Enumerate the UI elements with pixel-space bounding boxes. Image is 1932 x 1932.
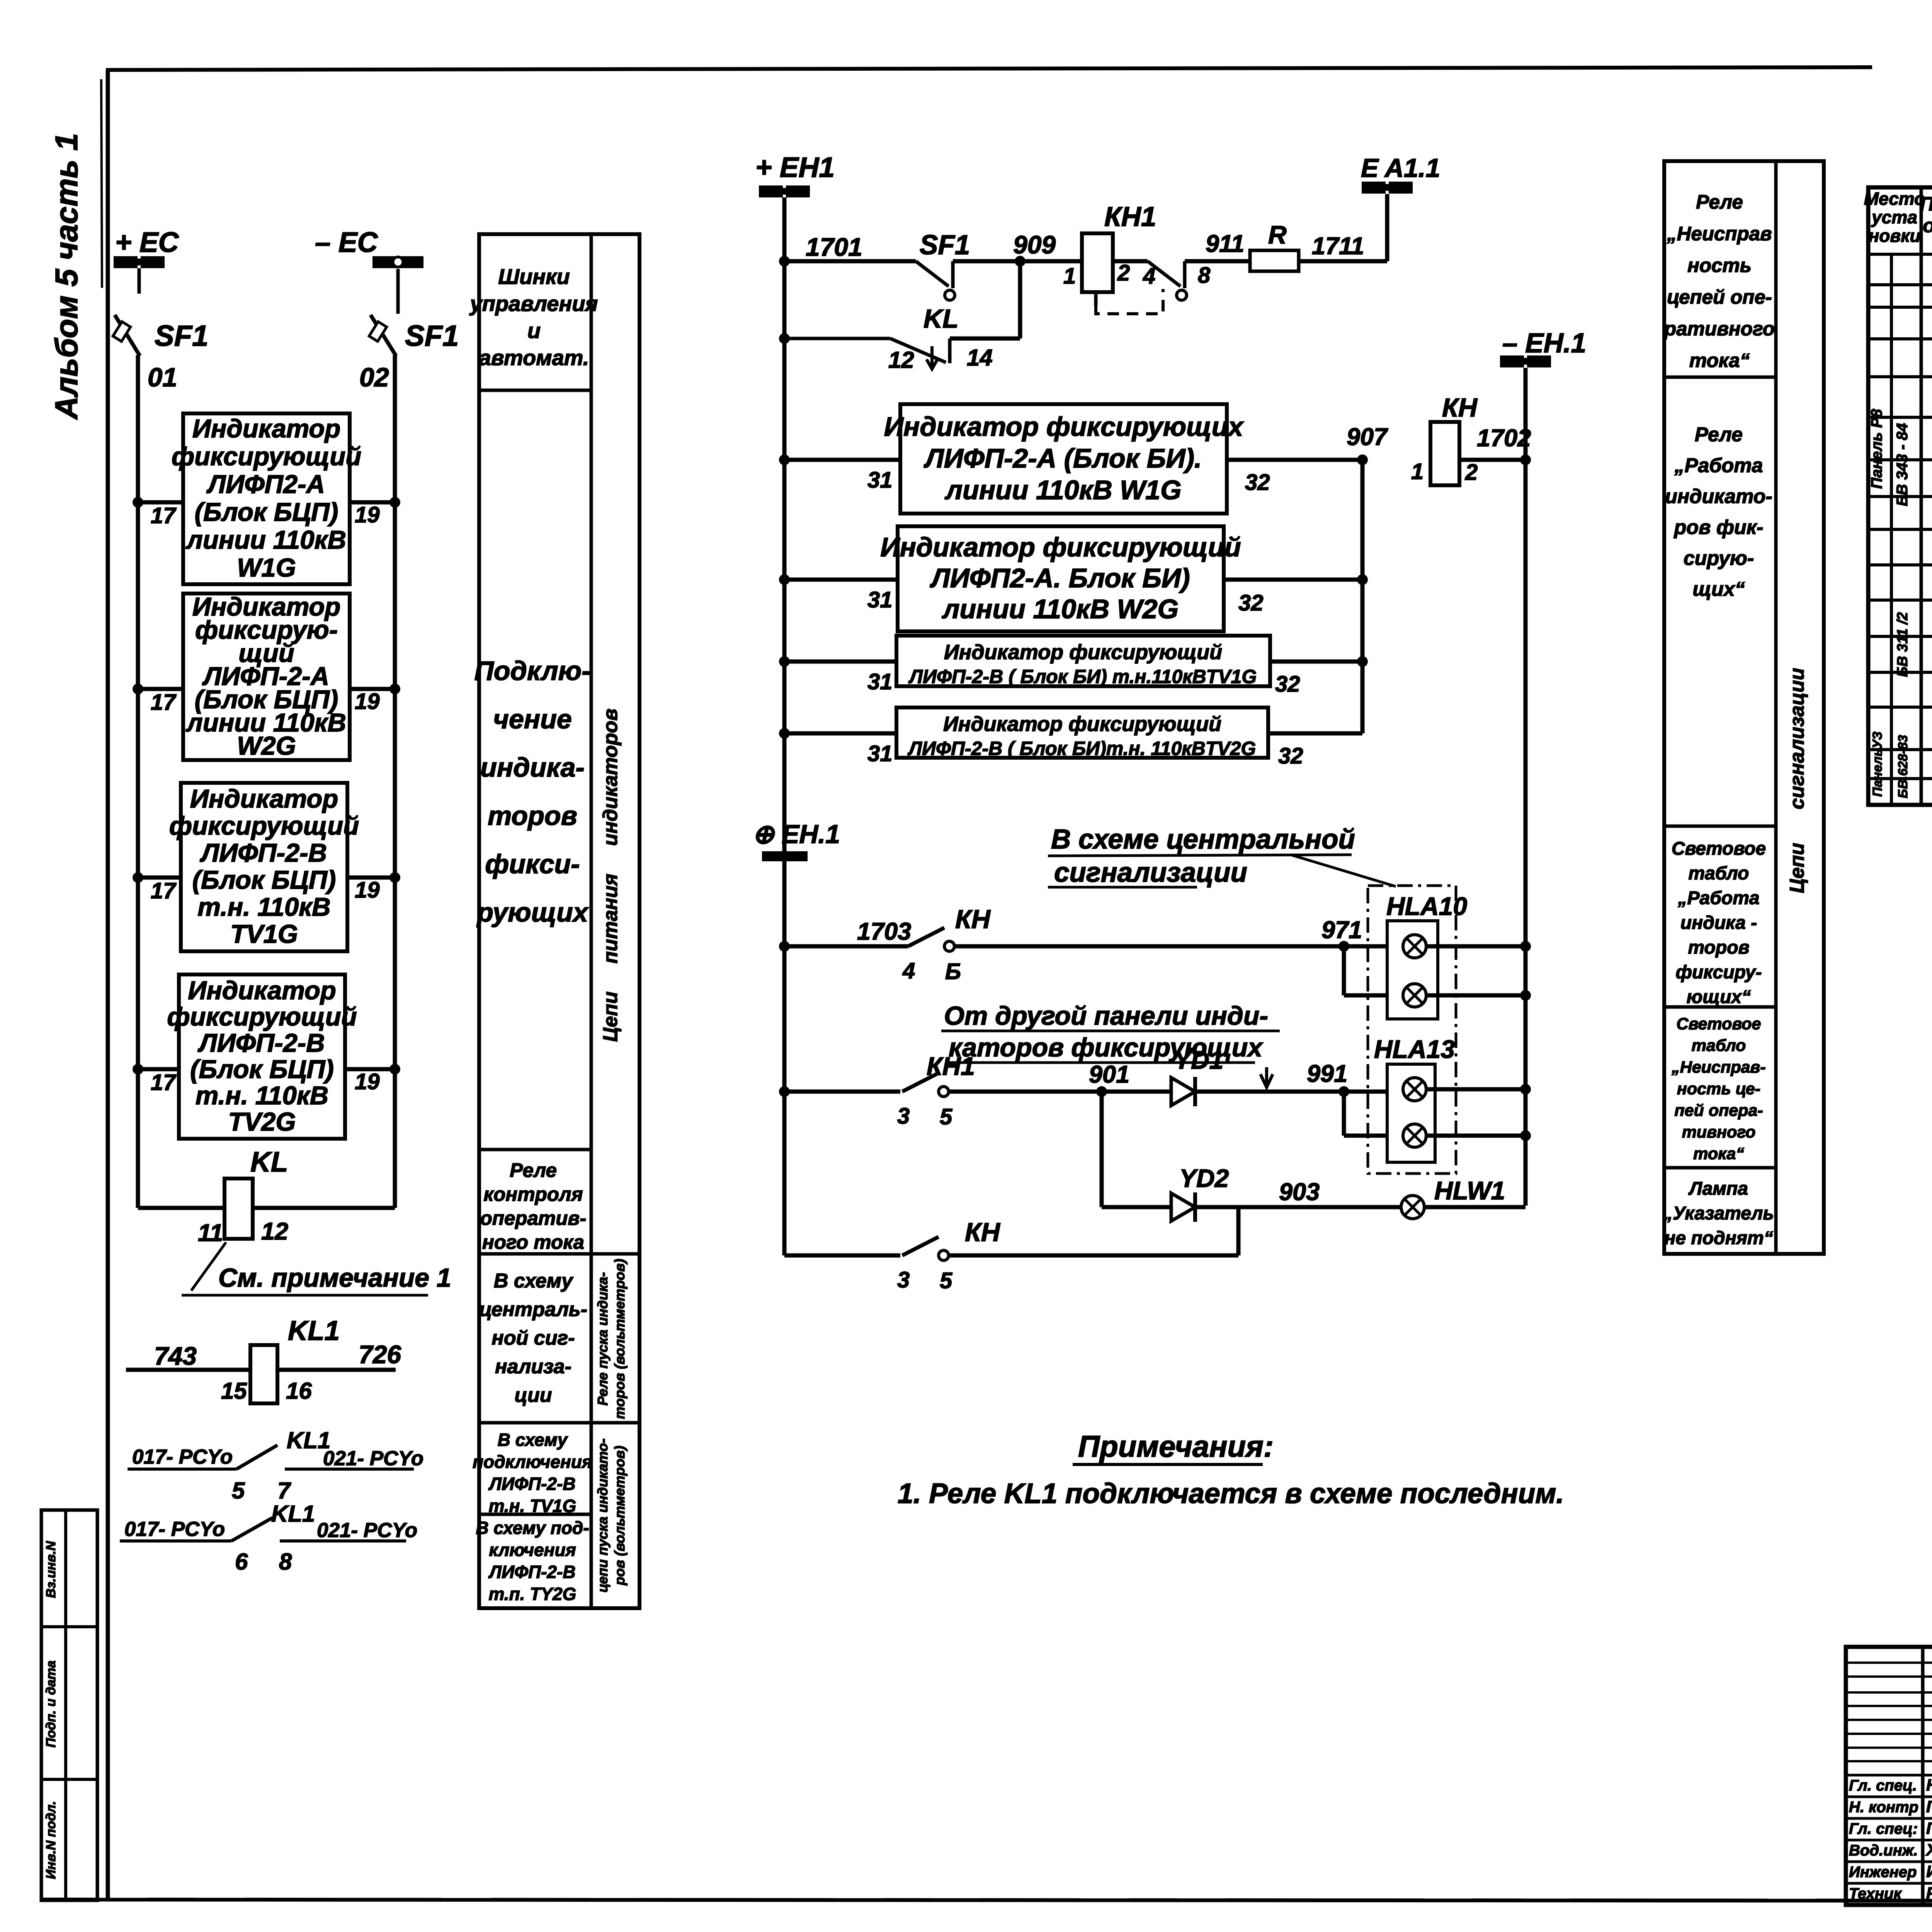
wire stub 17 box2 [138,687,183,691]
svg-text:централь-: централь- [479,1298,587,1321]
wire stub 19 box3 [347,876,395,880]
svg-text:⊕ EH.1: ⊕ EH.1 [752,820,840,849]
contact KH pins 4-Б [908,928,954,951]
annotation column (шинки/подключение/реле) [479,234,639,1608]
svg-text:ров фик-: ров фик- [1673,516,1764,539]
cell Световое табло Работа индикаторов фиксирующих [1672,838,1766,1007]
svg-text:„Работа: „Работа [1677,888,1759,908]
breaker SF1 pole 01 [113,315,140,356]
wire 1701 [784,259,916,264]
wire boxA 32 to node 907 [1227,458,1362,462]
svg-text:пей опера-: пей опера- [1674,1101,1763,1120]
svg-text:8: 8 [1198,263,1211,288]
cell Реле Неисправность цепей оперативного тока [1663,191,1775,371]
svg-text:3: 3 [897,1104,910,1129]
svg-text:цепей опе-: цепей опе- [1667,286,1772,308]
junction box3 left [133,872,143,883]
contact KL1 pins 6-8 [120,1501,417,1575]
wire node 907 vertical [1361,460,1365,733]
svg-text:01: 01 [148,362,177,392]
svg-text:Позиционное: Позиционное [1920,193,1932,215]
svg-text:ного тока: ного тока [482,1231,584,1253]
bus ⊕EH.1 [752,820,840,861]
cell Реле Работа индикаторов фиксирующих [1665,423,1772,600]
svg-text:Лампа: Лампа [1688,1179,1748,1199]
svg-text:См. примечание 1: См. примечание 1 [218,1263,451,1293]
breaker SF1 pole 02 [369,315,396,356]
header Место установки [1864,189,1925,246]
wire 01 vertical [136,355,140,1208]
svg-text:„Указатель: „Указатель [1663,1203,1774,1224]
cell В схему подключения ЛИФП-2-В т.н. TV1G [473,1430,592,1516]
svg-text:подключения: подключения [473,1452,592,1472]
svg-text:В схему под-: В схему под- [476,1518,589,1538]
indicator box БИ W1G [884,404,1245,514]
lamp HLW1 [1401,1196,1424,1219]
junction box4 left [133,1064,143,1075]
svg-text:KL1: KL1 [271,1501,315,1527]
svg-text:16: 16 [286,1378,312,1404]
svg-text:ющих“: ющих“ [1687,987,1751,1007]
indicator box ЛИФП-2-А W2G [183,592,350,760]
svg-text:TV2G: TV2G [228,1107,296,1136]
svg-text:новки: новки [1868,226,1920,246]
svg-text:(Блок БЦП): (Блок БЦП) [190,1055,334,1084]
svg-text:31: 31 [867,468,893,493]
wire stub 19 box1 [350,500,395,505]
junction KL wire [779,333,790,344]
svg-text:КН: КН [1442,393,1478,422]
indicator box ЛИФП-2-В TV2G [167,975,357,1139]
svg-text:Иванова: Иванова [1926,1862,1932,1881]
svg-text:БВ 343 - 84: БВ 343 - 84 [1894,423,1911,506]
wire +EH1 vertical (upper) [782,197,787,851]
svg-text:19: 19 [355,689,380,714]
svg-text:Индикатор фиксирующий: Индикатор фиксирующий [944,641,1222,664]
svg-text:KL: KL [250,1146,288,1178]
bus -EH1 [1500,328,1586,367]
svg-text:фиксирующий: фиксирующий [172,442,361,471]
svg-text:31: 31 [867,741,893,766]
svg-text:Индикатор фиксирующих: Индикатор фиксирующих [884,412,1245,442]
svg-text:Горелик: Горелик [1926,1819,1932,1838]
svg-text:Вод.инж.: Вод.инж. [1849,1842,1918,1859]
svg-text:ЛИФП-2-А (Блок БИ).: ЛИФП-2-А (Блок БИ). [923,443,1202,473]
svg-text:В схеме центральной: В схеме центральной [1051,824,1355,855]
wire stub 19 box4 [345,1067,395,1071]
riser to 903 wire [1236,1207,1241,1255]
cell В схему центральной сигнализации [479,1270,587,1406]
svg-text:Распопова: Распопова [1926,1884,1932,1903]
wire stub 31 boxB [784,578,898,582]
wire 909 to KH1 [1020,259,1082,264]
svg-text:R: R [1268,220,1287,249]
junction boxA 31 [779,454,790,465]
svg-text:От другой панели инди-: От другой панели инди- [944,1001,1268,1031]
svg-text:оператив-: оператив- [480,1207,586,1229]
svg-text:17: 17 [151,1070,177,1095]
svg-text:SF1: SF1 [155,320,208,352]
indicator box ЛИФП-2-В TV1G [169,783,359,951]
junction box1 right [389,497,400,508]
svg-text:В схему: В схему [494,1270,574,1292]
wire stub 17 box1 [138,500,183,505]
svg-text:ключения: ключения [489,1540,576,1560]
svg-text:Н. контр: Н. контр [1849,1799,1918,1816]
svg-text:индикато-: индикато- [1665,485,1772,508]
note В схеме центральной сигнализации [1048,824,1355,888]
junction box2 right [389,684,400,694]
svg-text:4: 4 [902,958,915,983]
svg-text:6: 6 [235,1549,248,1575]
junction 907-B [1357,574,1368,585]
notes Примечания [898,1429,1564,1509]
svg-text:E A1.1: E A1.1 [1361,153,1440,183]
lamp HLA13-1 [1403,1078,1426,1101]
svg-text:тока“: тока“ [1689,349,1750,371]
wire to 911/R [1185,259,1250,264]
wire boxB 32 [1224,578,1362,582]
svg-text:HLA13: HLA13 [1374,1035,1455,1063]
svg-text:БВ.628-83: БВ.628-83 [1896,735,1910,798]
contact KH pins 3-5 [902,1237,949,1260]
wire EH.1 vertical (lower) [782,861,787,1255]
svg-text:тока“: тока“ [1693,1145,1744,1163]
svg-text:TV1G: TV1G [230,920,298,949]
svg-text:32: 32 [1275,672,1300,697]
svg-text:и: и [527,318,541,343]
svg-text:Гл. спец:: Гл. спец: [1849,1820,1918,1837]
svg-text:Шинки: Шинки [498,264,570,289]
wire node909 down [1018,261,1022,338]
diode YD2 [1171,1192,1195,1222]
svg-text:31: 31 [867,587,893,612]
wire stub 17 box3 [138,876,181,880]
svg-text:Вз.инв.N: Вз.инв.N [44,1541,58,1598]
svg-text:017- PCYo: 017- PCYo [132,1446,233,1468]
svg-text:31: 31 [867,669,893,694]
svg-text:Техник: Техник [1849,1885,1902,1902]
svg-text:Индикатор: Индикатор [190,784,338,813]
junction 971 [1338,941,1349,952]
svg-text:Подп. и дата: Подп. и дата [44,1660,58,1747]
svg-text:ЛИФП-2-В: ЛИФП-2-В [488,1474,575,1494]
wire 743 to KL1 coil [126,1368,250,1372]
svg-text:ЛИФП2-А: ЛИФП2-А [206,470,325,499]
svg-text:(Блок БЦП): (Блок БЦП) [195,498,338,527]
svg-text:т.н. 110кВ: т.н. 110кВ [197,893,330,922]
svg-text:индика -: индика - [1680,913,1757,933]
svg-text:Альбом 5 часть 1: Альбом 5 часть 1 [49,133,84,420]
svg-text:КН: КН [965,1218,1001,1247]
breaker contact SF1 [916,261,955,300]
contact KH1 pins 3-5 [902,1073,949,1097]
svg-text:SF1: SF1 [920,230,970,260]
svg-text:ность: ность [1687,254,1752,276]
svg-text:991: 991 [1307,1060,1347,1087]
wire boxC 32 [1270,660,1362,664]
svg-text:ной сиг-: ной сиг- [492,1327,575,1349]
bus -EC [315,227,423,314]
mechanical link (dashed) KH1 [1094,292,1098,306]
cell Реле контроля оперативного тока [480,1159,586,1253]
svg-text:15: 15 [221,1378,247,1404]
cell Лампа Указатель не поднят [1663,1179,1774,1248]
svg-text:– EH.1: – EH.1 [1502,328,1586,359]
junction -EH1 991 [1520,1084,1531,1095]
svg-text:ративного: ративного [1663,318,1775,340]
resistor R [1250,250,1299,271]
svg-text:HLW1: HLW1 [1434,1176,1505,1205]
svg-text:торов: торов [488,801,577,831]
junction 907-C [1357,656,1368,667]
svg-text:автомат.: автомат. [479,345,589,370]
wire HLA13-2 to -EH1 [1426,1134,1526,1138]
svg-text:1701: 1701 [806,233,862,261]
pointer line to HLA10 [1291,855,1396,886]
svg-text:KL1: KL1 [288,1316,340,1346]
svg-text:5: 5 [232,1478,245,1503]
svg-text:SF1: SF1 [405,320,459,352]
junction box3 right [389,872,400,883]
relay coil KH1 (pins 1-2) [1082,233,1113,292]
svg-text:19: 19 [355,502,380,527]
svg-text:нализа-: нализа- [495,1355,571,1378]
svg-text:табло: табло [1688,863,1749,884]
svg-text:уста: уста [1871,207,1917,227]
indicator box ЛИФП2-А W1G [172,413,361,584]
wire KL to node 909 drop [950,337,1020,341]
svg-text:Реле пуска индика-: Реле пуска индика- [595,1272,611,1405]
svg-text:фиксирующий: фиксирующий [169,811,359,840]
svg-text:17: 17 [151,503,177,528]
arrow from other panel to wire 991 [1260,1067,1273,1087]
wire to KL coil left [138,1206,224,1210]
wire to riser [949,1253,1238,1258]
svg-text:Цепи сигнализации: Цепи сигнализации [1786,668,1808,893]
svg-text:971: 971 [1321,917,1362,944]
svg-text:линии 110кВ: линии 110кВ [185,526,346,554]
junction 1703 [779,941,790,952]
table Перечень аппаратуры grid [1868,187,1932,805]
svg-text:сирую-: сирую- [1684,547,1754,570]
wire 1703 [784,944,908,949]
wire 02 vertical [393,355,397,1208]
svg-text:фиксирующий: фиксирующий [167,1002,357,1031]
lamp HLA10-1 [1403,935,1426,958]
svg-text:Реле: Реле [510,1159,557,1181]
wire branch HLA13 lamp2 [1342,1092,1346,1136]
svg-text:+ EH1: + EH1 [755,152,835,183]
junction boxB 31 [779,574,790,585]
svg-text:т.н. TV1G: т.н. TV1G [489,1496,577,1516]
svg-text:ЛИФП-2-В ( Блок БИ)т.н. 110кВT: ЛИФП-2-В ( Блок БИ)т.н. 110кВTV2G [908,738,1256,759]
svg-text:KL: KL [923,304,959,333]
relay coil KH (pins 1-2) [1430,422,1459,485]
svg-text:HLA10: HLA10 [1386,892,1467,920]
indicator box БИ TV1G [896,636,1270,687]
svg-text:ЛИФП-2-В: ЛИФП-2-В [488,1562,575,1582]
svg-text:021- PCYo: 021- PCYo [323,1447,423,1470]
bus +EC [114,227,179,294]
left margin stamp box [41,1510,97,1900]
svg-text:фикси-: фикси- [485,849,580,879]
wire 1711 [1299,259,1387,264]
svg-text:YD1: YD1 [1174,1046,1223,1074]
relay coil KL1 [250,1345,277,1403]
wire to KH1 contact [784,1090,900,1094]
svg-text:Никитин: Никитин [1926,1776,1932,1794]
svg-text:ПанельУЗ: ПанельУЗ [1870,731,1885,797]
junction box2 left [133,684,143,694]
lamp HLA13-2 [1403,1124,1426,1147]
svg-text:+ EC: + EC [115,227,179,258]
svg-text:Световое: Световое [1672,838,1766,859]
wire stub 17 box4 [138,1067,179,1071]
wire 1702 [1459,458,1526,462]
cell Подключение индикаторов фиксирующих [474,656,591,927]
node 901 [1096,1086,1107,1097]
wire bottom KH [784,1253,900,1258]
svg-text:YD2: YD2 [1179,1164,1229,1192]
svg-text:32: 32 [1238,590,1264,616]
svg-text:19: 19 [355,878,380,903]
svg-text:щих“: щих“ [1692,578,1745,600]
svg-text:ЛИФП-2-В: ЛИФП-2-В [199,838,327,867]
junction -EH1 971 [1520,941,1531,952]
svg-text:021- PCYo: 021- PCYo [317,1519,417,1542]
wire 903 [1195,1205,1401,1209]
wire 901 down to YD2 [1100,1092,1104,1207]
svg-text:Реле: Реле [1696,191,1743,213]
signal board HLA10 (dash-dot box) [1368,886,1456,1173]
svg-text:5: 5 [940,1268,952,1293]
svg-text:12: 12 [261,1218,288,1245]
svg-text:ЛИФП2-А. Блок БИ): ЛИФП2-А. Блок БИ) [929,563,1190,593]
svg-text:рующих: рующих [476,897,589,927]
junction boxC 31 [779,656,790,667]
svg-text:17: 17 [151,878,177,903]
wire stub 19 box2 [350,687,395,691]
wire to YD2 [1102,1205,1171,1209]
svg-text:КН: КН [955,905,991,934]
junction box1 left [133,497,143,508]
wire up to EA1.1 [1385,194,1389,261]
svg-text:Инв.N подл.: Инв.N подл. [44,1801,58,1879]
svg-text:Цепи питания индикатор: Цепи питания индикаторов [599,709,622,1042]
svg-text:торов (вольтметров): торов (вольтметров) [612,1259,628,1419]
svg-text:не поднят“: не поднят“ [1664,1228,1773,1248]
right annotation column [1664,161,1824,1254]
svg-text:„Неисправ-: „Неисправ- [1671,1058,1765,1077]
svg-text:Гл. спец.: Гл. спец. [1849,1777,1917,1794]
contact KL pins 12-14 [784,338,993,373]
svg-text:ЛИФП-2-В ( Блок БИ) т.н.110кВT: ЛИФП-2-В ( Блок БИ) т.н.110кВTV1G [908,666,1257,687]
wire to node 909 [953,259,1020,264]
contact KH1 pins 4-8 [1148,261,1187,300]
svg-text:907: 907 [1347,423,1388,451]
wire HLA10-1 to -EH1 [1426,944,1526,949]
svg-text:ЛИФП-2-В: ЛИФП-2-В [197,1029,325,1058]
svg-text:Место: Место [1864,189,1925,209]
svg-text:017- PCYo: 017- PCYo [124,1518,225,1541]
junction box4 right [389,1064,400,1075]
svg-text:ров (вольтметров): ров (вольтметров) [612,1446,628,1585]
svg-text:17: 17 [151,690,177,715]
svg-text:W2G: W2G [237,731,296,760]
svg-text:11: 11 [198,1219,223,1247]
svg-text:БВ 311 /2: БВ 311 /2 [1895,612,1911,677]
junction -EH1 HLA10-2 [1520,990,1531,1001]
title block grid [1846,1647,1932,1905]
svg-text:ность це-: ность це- [1677,1080,1760,1098]
signature rows [1849,1776,1932,1903]
bus +EH1 [755,152,835,197]
lamp block HLA13 [1387,1064,1435,1162]
wire HLW1 to -EH1 [1424,1205,1526,1209]
svg-text:Индикатор фиксирующий: Индикатор фиксирующий [943,713,1221,736]
svg-text:Индикатор: Индикатор [192,414,341,443]
svg-text:КН1: КН1 [1104,202,1156,232]
header Позиционное обозначение по схеме [1920,193,1932,258]
svg-text:тивного: тивного [1682,1123,1756,1141]
svg-text:ции: ции [514,1384,552,1406]
svg-text:7: 7 [277,1478,291,1503]
wire stub 31 boxC [784,660,896,664]
wire KL1 coil to 726 [277,1368,396,1372]
wire branch to lamp 2 [1342,946,1346,995]
svg-text:Индикатор фиксирующий: Индикатор фиксирующий [880,532,1241,562]
svg-text:фиксиру-: фиксиру- [1676,962,1762,983]
svg-text:3: 3 [897,1267,910,1293]
svg-text:1702: 1702 [1477,425,1531,452]
svg-text:Хрипунникова: Хрипунникова [1925,1841,1932,1859]
relay coil KL [224,1179,253,1239]
bus EA1.1 [1361,153,1440,194]
svg-text:Панель Р8: Панель Р8 [1868,409,1885,489]
cell В схему подключения ЛИФП-2-В т.п. TY2G [476,1518,589,1604]
svg-text:т.н. 110кВ: т.н. 110кВ [196,1081,328,1110]
diode YD1 [1171,1077,1195,1106]
svg-text:– EC: – EC [315,227,378,258]
svg-text:Световое: Световое [1677,1015,1761,1033]
wire to KL coil right [253,1206,395,1210]
svg-text:контроля: контроля [483,1183,583,1205]
wire -EH1 vertical [1524,368,1528,1206]
lamp block HLA10 [1387,921,1438,1019]
wire to HLA10 lamp 2 [1344,993,1403,998]
svg-text:903: 903 [1279,1179,1320,1206]
svg-text:управления: управления [469,291,598,316]
wire boxD 32 [1268,731,1362,736]
svg-text:911: 911 [1206,230,1244,257]
svg-text:Подклю-: Подклю- [474,656,591,686]
wire KH1 to contact [1113,259,1148,264]
svg-text:1703: 1703 [857,918,911,945]
svg-text:1. Реле KL1 подключается: 1. Реле KL1 подключается в схеме последн… [898,1478,1564,1509]
wire 991 [1195,1090,1403,1094]
svg-text:1711: 1711 [1312,233,1364,260]
svg-text:„Неисправ: „Неисправ [1667,223,1772,245]
svg-text:2: 2 [1465,460,1478,485]
svg-text:В схему: В схему [498,1430,568,1450]
svg-text:32: 32 [1245,470,1270,495]
cell Световое табло Неисправность [1671,1015,1765,1163]
svg-text:02: 02 [359,362,389,392]
svg-text:табло: табло [1692,1036,1746,1055]
svg-text:„Работа: „Работа [1674,454,1763,477]
junction 1701 [779,256,790,267]
